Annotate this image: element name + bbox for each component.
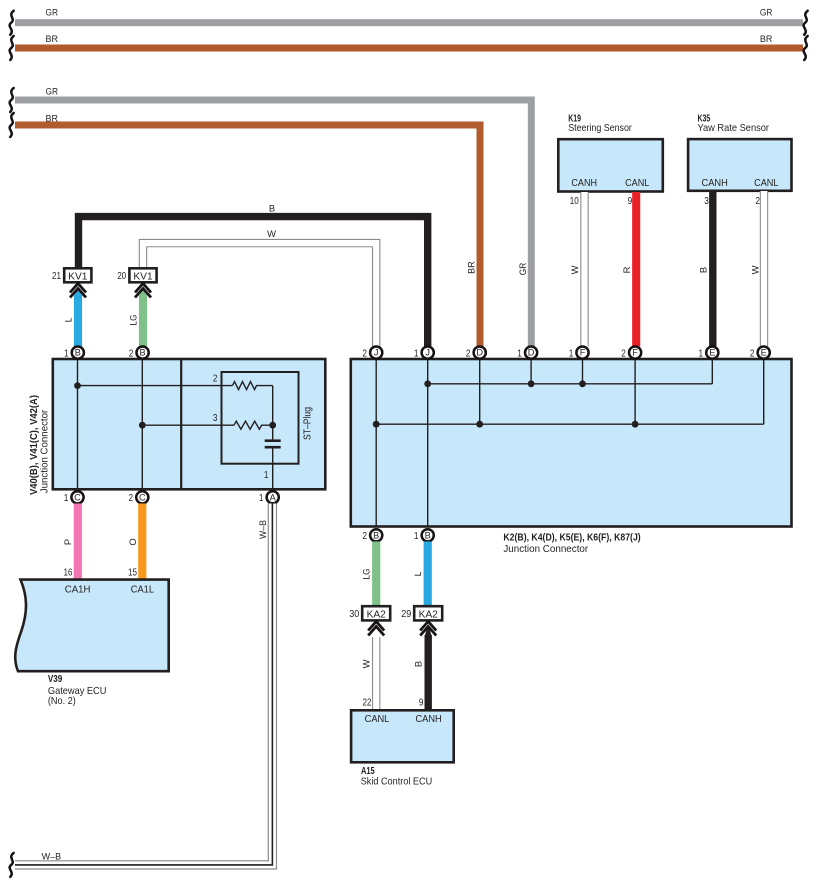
svg-text:Junction Connector: Junction Connector [39,409,50,493]
svg-text:W: W [749,265,760,274]
svg-text:GR: GR [46,7,59,18]
svg-text:9: 9 [419,698,424,709]
svg-text:Skid Control ECU: Skid Control ECU [361,777,433,788]
svg-text:E: E [709,348,715,358]
svg-text:1: 1 [264,470,269,481]
svg-text:C: C [139,492,146,502]
svg-text:L: L [62,318,73,323]
svg-text:29: 29 [401,609,411,620]
svg-text:BR: BR [46,113,59,124]
svg-text:Steering Sensor: Steering Sensor [568,123,632,134]
svg-text:Junction Connector: Junction Connector [503,544,588,555]
svg-text:A15: A15 [361,766,375,777]
svg-text:2: 2 [213,373,218,384]
svg-text:F: F [580,348,586,358]
svg-text:2: 2 [362,531,367,542]
svg-text:30: 30 [349,609,359,620]
svg-text:2: 2 [362,348,367,359]
svg-text:16: 16 [64,568,73,579]
svg-text:CA1H: CA1H [65,585,91,596]
svg-text:BR: BR [46,33,59,44]
svg-text:KA2: KA2 [367,609,387,620]
svg-text:Yaw Rate Sensor: Yaw Rate Sensor [698,123,770,134]
svg-text:B: B [413,661,424,667]
svg-text:B: B [75,348,81,358]
svg-text:1: 1 [64,493,69,504]
svg-text:B: B [425,530,431,540]
svg-text:1: 1 [699,348,704,359]
svg-text:2: 2 [129,348,134,359]
svg-text:R: R [621,266,632,273]
svg-text:A: A [270,492,277,502]
svg-text:2: 2 [755,196,760,207]
svg-text:W: W [361,659,372,668]
svg-text:ST–Plug: ST–Plug [303,407,314,440]
svg-text:LG: LG [127,315,138,326]
svg-text:L: L [412,572,423,577]
svg-text:1: 1 [259,493,264,504]
svg-text:CA1L: CA1L [131,585,155,596]
svg-text:9: 9 [628,196,633,207]
svg-text:CANH: CANH [416,714,442,725]
svg-text:1: 1 [517,348,522,359]
svg-text:B: B [269,202,275,213]
svg-text:GR: GR [760,7,773,18]
svg-text:2: 2 [129,493,134,504]
svg-text:1: 1 [414,348,419,359]
svg-text:1: 1 [569,348,574,359]
svg-text:GR: GR [46,86,59,97]
svg-text:K2(B), K4(D), K5(E), K6(F), K8: K2(B), K4(D), K5(E), K6(F), K87(J) [503,533,640,544]
svg-text:J: J [374,348,379,358]
svg-text:2: 2 [621,348,626,359]
svg-text:CANH: CANH [702,178,728,189]
svg-text:B: B [373,530,379,540]
svg-text:CANH: CANH [571,178,597,189]
svg-text:W–B: W–B [42,850,62,861]
svg-text:W: W [569,265,580,274]
svg-text:BR: BR [760,33,773,44]
svg-text:KV1: KV1 [68,271,88,282]
svg-text:GR: GR [517,263,528,276]
svg-text:W: W [267,228,276,239]
svg-text:W–B: W–B [257,520,268,539]
svg-text:22: 22 [363,698,372,709]
svg-text:V39: V39 [48,674,63,685]
svg-text:CANL: CANL [754,178,779,189]
svg-text:C: C [74,492,81,502]
svg-text:B: B [697,267,708,273]
svg-text:P: P [62,539,73,545]
svg-text:(No. 2): (No. 2) [48,696,76,707]
svg-text:O: O [127,538,138,545]
svg-text:E: E [761,348,767,358]
svg-text:10: 10 [570,196,579,207]
svg-text:J: J [425,348,430,358]
svg-text:F: F [632,348,638,358]
svg-text:CANL: CANL [365,714,390,725]
svg-text:21: 21 [52,271,61,282]
svg-text:2: 2 [466,348,471,359]
svg-text:1: 1 [414,531,419,542]
svg-text:KA2: KA2 [419,609,439,620]
svg-text:CANL: CANL [625,178,649,189]
svg-text:2: 2 [750,348,755,359]
svg-text:3: 3 [704,196,709,207]
svg-text:15: 15 [128,568,137,579]
svg-text:B: B [140,348,146,358]
svg-text:BR: BR [466,261,477,274]
svg-text:D: D [528,348,535,358]
svg-text:D: D [476,348,483,358]
svg-text:LG: LG [361,569,372,580]
svg-text:20: 20 [117,271,126,282]
svg-text:1: 1 [64,348,69,359]
svg-text:3: 3 [213,413,218,424]
svg-text:KV1: KV1 [133,271,153,282]
